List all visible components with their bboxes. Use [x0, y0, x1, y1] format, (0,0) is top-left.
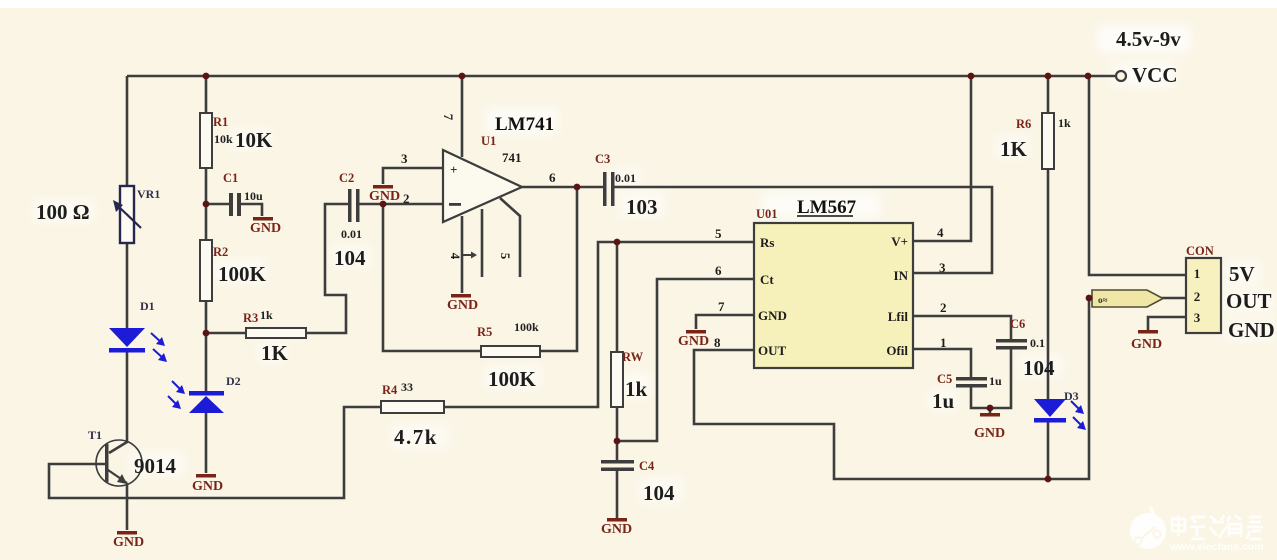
node rail-R6	[1045, 73, 1052, 80]
svg-text:RW: RW	[622, 350, 644, 364]
ground under D2	[192, 474, 223, 494]
svg-text:www.elecfans.com: www.elecfans.com	[1169, 541, 1264, 553]
op-amp U1 LM741	[443, 150, 522, 222]
svg-text:2: 2	[940, 300, 947, 315]
wire node to R3 left	[206, 332, 246, 335]
svg-text:D3: D3	[1064, 389, 1079, 403]
wire R1 bottom to R2 top	[205, 168, 208, 240]
capacitor C2	[348, 189, 360, 222]
node R1-C1	[203, 201, 210, 208]
node rail-V+	[968, 73, 975, 80]
watermark logo elecfans	[1130, 506, 1166, 549]
svg-text:GND: GND	[113, 535, 144, 550]
svg-text:C3: C3	[595, 152, 610, 166]
resistor RW	[611, 352, 623, 407]
svg-text:R2: R2	[213, 245, 228, 259]
svg-text:GND: GND	[447, 298, 478, 313]
svg-text:R4: R4	[382, 383, 398, 397]
capacitor C1	[229, 193, 241, 216]
svg-text:100 Ω: 100 Ω	[36, 200, 90, 224]
label LM567	[797, 197, 857, 218]
svg-text:LM567: LM567	[797, 197, 857, 218]
svg-text:U1: U1	[481, 134, 496, 148]
svg-text:4.7k: 4.7k	[394, 425, 438, 449]
svg-text:D1: D1	[140, 299, 155, 313]
svg-text:C6: C6	[1010, 317, 1025, 331]
wire node to RW top	[616, 242, 619, 352]
svg-text:V+: V+	[891, 234, 908, 249]
svg-text:103: 103	[626, 195, 658, 219]
svg-text:GND: GND	[678, 334, 709, 349]
svg-text:7: 7	[441, 114, 456, 121]
svg-text:GND: GND	[1131, 337, 1162, 352]
node D3-out	[1045, 476, 1052, 483]
svg-text:C5: C5	[937, 372, 952, 386]
svg-text:VR1: VR1	[137, 187, 160, 201]
svg-text:GND: GND	[192, 479, 223, 494]
wire rail to R6 top	[1047, 76, 1050, 113]
wire C1 right plate to ground	[241, 204, 262, 216]
wire LM567 pin 8 OUT to output net	[694, 298, 1089, 479]
wire rail to op-amp pin 7	[461, 76, 464, 157]
svg-text:0.1: 0.1	[1030, 336, 1045, 350]
watermark text dianzifashaoyou	[1172, 515, 1263, 539]
svg-text:100K: 100K	[218, 262, 267, 286]
svg-text:OUT: OUT	[1226, 289, 1272, 313]
resistor R4	[381, 401, 444, 413]
svg-text:+: +	[450, 162, 457, 177]
svg-text:1u: 1u	[989, 374, 1002, 388]
svg-text:4: 4	[448, 253, 463, 260]
svg-text:1: 1	[940, 335, 947, 350]
wire CON pin 1 to rail	[1089, 76, 1186, 275]
svg-text:2: 2	[403, 191, 410, 206]
svg-text:GND: GND	[250, 221, 281, 236]
wire LM567 pin 4 V+ to rail	[913, 76, 971, 241]
svg-text:LM741: LM741	[495, 114, 554, 135]
svg-text:C1: C1	[223, 171, 238, 185]
svg-text:1k: 1k	[625, 377, 648, 401]
svg-text:VCC: VCC	[1132, 63, 1178, 87]
wire R6 bottom to D3 anode	[1047, 169, 1050, 399]
wire C4 bottom to ground	[616, 471, 619, 518]
wire R2 bottom to D2 anode	[205, 301, 208, 391]
svg-text:104: 104	[334, 246, 366, 270]
svg-text:741: 741	[502, 150, 522, 165]
node arrow tip	[1086, 295, 1093, 302]
wire D3 cathode to output net	[1047, 422, 1050, 479]
svg-text:3: 3	[401, 151, 408, 166]
wire op-amp pin 5 stub	[500, 198, 520, 277]
svg-text:OUT: OUT	[758, 343, 787, 358]
svg-text:4: 4	[937, 225, 944, 240]
resistor R1	[200, 113, 212, 168]
wire rail to R1 top	[205, 76, 208, 113]
svg-text:104: 104	[1023, 356, 1055, 380]
wire LM567 pin 2 Lfil to C6	[913, 316, 1011, 339]
svg-text:100K: 100K	[488, 367, 537, 391]
svg-text:U01: U01	[756, 207, 778, 221]
svg-text:D2: D2	[226, 374, 241, 388]
svg-text:T1: T1	[88, 428, 102, 442]
node rail-CON1	[1085, 73, 1092, 80]
resistor R3	[246, 328, 306, 338]
wire D1 cathode to T1 collector	[109, 352, 127, 453]
svg-text:Ofil: Ofil	[886, 343, 908, 358]
svg-text:GND: GND	[758, 308, 787, 323]
svg-text:1k: 1k	[1058, 116, 1071, 130]
svg-text:9014: 9014	[134, 454, 177, 478]
wire op-amp pin 1 stub	[481, 209, 484, 277]
svg-text:10k: 10k	[214, 132, 233, 146]
capacitor C3	[603, 172, 615, 206]
node rail-pin7	[459, 73, 466, 80]
svg-text:GND: GND	[974, 426, 1005, 441]
svg-text:C4: C4	[639, 459, 655, 473]
node RW-C4-Ct	[614, 438, 621, 445]
wire C2 right plate to op-amp pin 2	[359, 203, 443, 206]
svg-text:Rs: Rs	[760, 235, 774, 250]
node R2-R3-D2	[203, 330, 210, 337]
svg-text:1: 1	[1194, 266, 1201, 281]
ground at CON pin 3	[1131, 330, 1162, 352]
node rail-R1	[203, 73, 210, 80]
resistor R2	[200, 240, 212, 301]
wire CON pin 3 to ground	[1148, 317, 1186, 330]
connector CON	[1186, 258, 1221, 333]
svg-text:4.5v-9v: 4.5v-9v	[1116, 27, 1181, 51]
ground at op-amp pin 4	[447, 294, 478, 313]
svg-text:10K: 10K	[235, 128, 273, 152]
svg-text:1K: 1K	[261, 341, 289, 365]
svg-text:5: 5	[498, 253, 513, 260]
svg-text:R1: R1	[213, 115, 228, 129]
svg-text:3: 3	[1194, 310, 1201, 325]
wire R3 right to C2 left plate	[306, 204, 348, 333]
wire LM567 pin 7 to ground	[696, 315, 754, 329]
wire RW bottom to C4 top	[616, 407, 619, 460]
wire op-amp output to C3 left plate	[521, 186, 603, 189]
resistor R6	[1042, 113, 1054, 169]
capacitor C4	[601, 460, 634, 471]
wire node to C1 left plate	[206, 203, 229, 206]
wire VCC rail to VR1 top	[126, 76, 129, 186]
ground under C4	[601, 518, 632, 537]
svg-text:3: 3	[939, 260, 946, 275]
svg-text:CON: CON	[1186, 244, 1214, 258]
svg-text:104: 104	[643, 481, 675, 505]
svg-text:6: 6	[549, 170, 556, 185]
wire D2 cathode to ground	[205, 413, 208, 473]
photodiode D2 infrared receiver	[168, 381, 224, 413]
svg-text:C2: C2	[339, 171, 354, 185]
capacitor C5	[956, 377, 987, 388]
ground under C1	[250, 217, 281, 236]
IC U01 LM567	[754, 223, 913, 368]
wire LM567 pin 1 Ofil to C5	[913, 349, 971, 377]
svg-text:IN: IN	[894, 268, 909, 283]
node C5-C6-GND	[987, 405, 994, 412]
svg-text:5V: 5V	[1229, 262, 1255, 286]
resistor R5	[481, 346, 540, 357]
svg-text:R5: R5	[477, 325, 492, 339]
svg-text:R6: R6	[1016, 117, 1031, 131]
wire R4 right to LM567 pin 5	[444, 242, 754, 407]
net label arrow OUT	[1092, 290, 1163, 307]
ground at LM567 pin 7	[678, 330, 709, 349]
svg-text:5: 5	[715, 226, 722, 241]
wire C5 bottom to ground node	[971, 387, 990, 408]
wire VR1 bottom to D1 anode	[126, 243, 129, 328]
svg-text:2: 2	[1194, 289, 1201, 304]
svg-text:100k: 100k	[514, 320, 539, 334]
svg-text:10u: 10u	[244, 189, 263, 203]
svg-text:33: 33	[401, 380, 413, 394]
wire VCC top rail	[127, 75, 1116, 78]
svg-text:0.01: 0.01	[615, 171, 636, 185]
svg-text:GND: GND	[1228, 318, 1275, 342]
LED D3 indicator	[1034, 399, 1086, 430]
svg-text:R3: R3	[243, 311, 258, 325]
node output-R5	[574, 184, 581, 191]
svg-text:Lfil: Lfil	[888, 309, 909, 324]
svg-text:Ct: Ct	[760, 272, 774, 287]
wire op-amp pin 4 to ground	[461, 216, 464, 293]
wire C3 right plate to LM567 pin 3 IN	[613, 187, 992, 273]
ground under T1 emitter	[113, 531, 144, 550]
wire RW bottom node to LM567 pin 6 Ct	[617, 279, 754, 441]
svg-text:1u: 1u	[932, 389, 955, 413]
wire R5 right to output node	[540, 187, 577, 351]
pin 4 tick	[462, 252, 477, 259]
node C2-pin2-R5	[380, 201, 387, 208]
node Rs-RW	[614, 239, 621, 246]
svg-text:1K: 1K	[1000, 137, 1028, 161]
svg-text:1k: 1k	[260, 308, 273, 322]
svg-text:GND: GND	[601, 522, 632, 537]
svg-text:0.01: 0.01	[341, 227, 362, 241]
svg-text:8: 8	[714, 335, 721, 350]
wire C6 bottom to ground node	[990, 349, 1011, 413]
svg-text:o≈: o≈	[1098, 295, 1108, 305]
wire CON pin 2 to net arrow	[1160, 297, 1186, 300]
ground at op-amp pin 3	[369, 185, 400, 204]
ground under C5/C6	[974, 413, 1005, 441]
wire T1 base to R4 left	[49, 407, 381, 498]
LED D1 infrared emitter	[109, 328, 167, 362]
svg-text:7: 7	[718, 299, 725, 314]
wire node A to R5 left (feedback)	[383, 204, 481, 351]
transistor Q1/T1 9014 NPN	[96, 440, 142, 530]
svg-text:6: 6	[715, 263, 722, 278]
resistor VR1 100 ohm photoresistor/trimmer	[113, 186, 141, 243]
capacitor C6	[996, 339, 1027, 350]
wire op-amp pin 3 to ground stub	[383, 168, 443, 184]
power terminal VCC	[1116, 63, 1178, 87]
